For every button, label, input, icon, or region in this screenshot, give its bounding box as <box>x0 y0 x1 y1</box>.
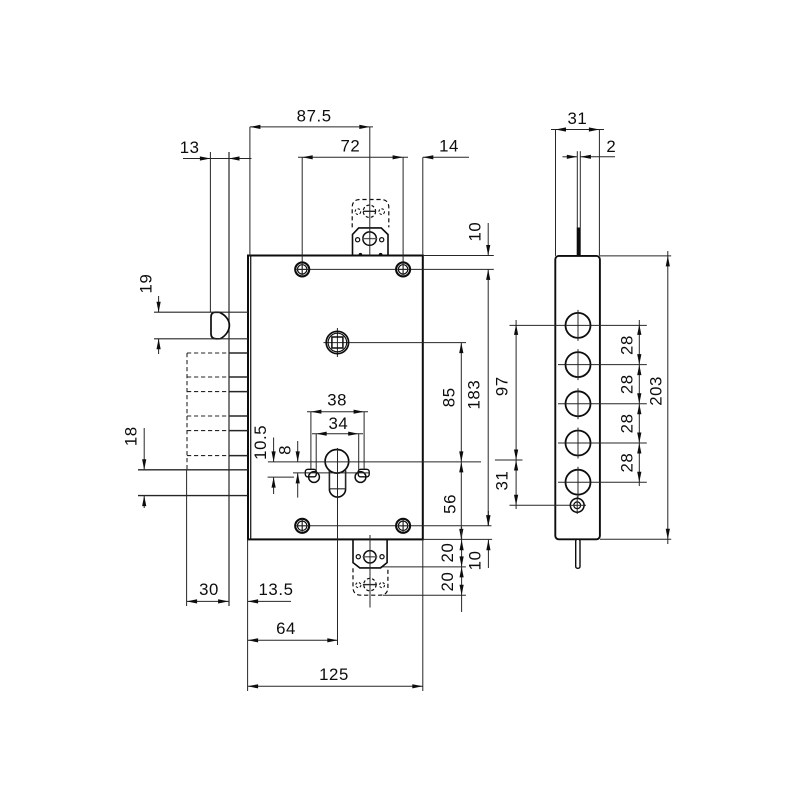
screw bottom-left <box>295 519 309 533</box>
bolt hole 2 <box>566 349 591 380</box>
svg-text:18: 18 <box>121 426 140 446</box>
bottom accessory dashed hole right <box>379 583 384 588</box>
dimension 30 <box>187 580 229 604</box>
dimension 28 chain <box>618 320 642 486</box>
screw bottom-right <box>396 519 410 533</box>
dimension 2 <box>563 137 617 159</box>
top accessory dashed hole right <box>379 209 385 215</box>
svg-text:38: 38 <box>327 390 347 409</box>
svg-text:85: 85 <box>440 387 459 407</box>
dimension 18 (bolt diameter) <box>121 426 146 508</box>
faceplate screw centre line <box>510 504 587 506</box>
dimension 10.5 <box>251 425 276 494</box>
dimension 13 <box>180 138 252 161</box>
svg-text:10: 10 <box>466 222 485 242</box>
deadbolts thrown position (dashed) <box>187 353 229 470</box>
plate bottom extension line <box>381 566 466 568</box>
euro profile cylinder <box>325 450 349 498</box>
cylinder centre reference line <box>268 461 481 463</box>
top accessory dashed outline <box>352 200 389 228</box>
dimension 19 (latch height) <box>136 274 160 354</box>
dimension 20 and 20 (bottom accessory) <box>438 527 464 612</box>
dimension 203 <box>600 251 671 544</box>
bolt hole 3 <box>566 388 591 419</box>
faceplate bottom tongue <box>576 539 580 568</box>
svg-text:30: 30 <box>199 580 219 599</box>
ear centre reference line <box>293 472 369 474</box>
deadbolt row 4 with extension lines <box>138 470 248 496</box>
bolt hole centre line 5 <box>558 481 647 483</box>
ear bottom reference line <box>268 476 294 478</box>
faceplate top tongue (solid) <box>577 228 581 256</box>
bottom screw centre line <box>309 525 492 527</box>
dimension 13.5 <box>248 580 294 604</box>
svg-text:31: 31 <box>492 471 511 491</box>
top accessory dashed hole left <box>355 209 361 215</box>
latch bolt (half-round) <box>211 312 229 339</box>
latch top line / extension <box>154 311 248 313</box>
svg-text:125: 125 <box>319 665 349 684</box>
dimension 85 and 56 line <box>440 343 464 540</box>
dimension 183 with top 10 <box>464 222 490 526</box>
svg-text:19: 19 <box>136 274 155 294</box>
dimension 72 <box>298 137 408 160</box>
svg-text:31: 31 <box>567 109 587 128</box>
top plate bottom nubs <box>359 253 383 257</box>
faceplate body (side view) <box>555 256 600 539</box>
dimension 64 <box>248 619 338 642</box>
bottom accessory dashed screw circle <box>363 578 377 590</box>
svg-text:10: 10 <box>466 550 485 570</box>
cylinder centre line <box>337 448 339 645</box>
svg-text:97: 97 <box>492 376 511 396</box>
square follower nut <box>324 328 467 357</box>
body bottom edge extension <box>423 538 492 540</box>
screw top-right <box>396 262 410 276</box>
svg-text:34: 34 <box>328 414 348 433</box>
svg-text:28: 28 <box>618 453 637 473</box>
bottom accessory centre line <box>369 535 371 608</box>
svg-text:10.5: 10.5 <box>251 425 270 460</box>
dashed piece bottom extension line <box>383 594 466 596</box>
dimension 34 <box>312 414 363 471</box>
body left edge top extension <box>249 127 251 256</box>
dimension 8 <box>276 441 300 498</box>
svg-text:28: 28 <box>618 374 637 394</box>
bottom plate screw <box>363 551 378 563</box>
screw top-left <box>295 262 309 276</box>
top accessory dashed screw circle <box>363 205 376 217</box>
svg-text:14: 14 <box>439 137 459 156</box>
bolt hole 4 <box>566 428 591 459</box>
bolt hole 1 <box>566 310 591 341</box>
svg-text:2: 2 <box>606 137 616 156</box>
dimension 31 (top) <box>551 109 604 256</box>
dimension 10 (bottom) <box>466 511 491 570</box>
top accessory plate <box>353 228 389 256</box>
cylinder fixing ear right <box>355 469 369 482</box>
bottom plate hole right <box>380 555 384 559</box>
svg-text:8: 8 <box>276 445 295 455</box>
dimension 38 <box>307 390 368 469</box>
faceplate top tail extension lines <box>577 151 580 227</box>
bolt hole centre line 2 <box>558 364 647 366</box>
bottom accessory dashed outline <box>353 568 388 595</box>
top screw centre line <box>309 268 494 270</box>
svg-text:28: 28 <box>618 335 637 355</box>
faceplate front edge line <box>228 152 230 606</box>
top plate hole right <box>380 238 384 242</box>
svg-text:183: 183 <box>464 380 483 410</box>
body right edge bottom extension <box>422 539 424 691</box>
svg-text:87.5: 87.5 <box>297 106 332 125</box>
bolt hole 5 <box>566 467 591 498</box>
dimension 125 <box>248 665 423 688</box>
svg-text:13.5: 13.5 <box>258 580 293 599</box>
bolt throw extension line <box>186 470 188 606</box>
bottom accessory plate <box>353 539 387 568</box>
lock body outline (front view) <box>248 256 423 540</box>
dimension 87.5 <box>250 106 373 129</box>
bolt hole centre line 4 <box>558 442 647 444</box>
svg-text:20: 20 <box>438 543 457 563</box>
svg-text:20: 20 <box>438 572 457 592</box>
faceplate fixing screw <box>570 497 584 515</box>
top plate screw <box>362 232 377 246</box>
cylinder fixing ear left <box>305 469 319 482</box>
svg-text:64: 64 <box>276 619 296 638</box>
top accessory centre line <box>369 127 371 256</box>
top plate hole left <box>356 238 360 242</box>
bottom accessory dashed hole left <box>356 583 361 588</box>
latch bottom line / extension <box>154 338 248 340</box>
dimension 14 <box>423 137 469 256</box>
bolt hole centre line 3 <box>558 403 647 405</box>
deadbolts (solid, rows 1-3) <box>229 353 248 456</box>
latch front extension line <box>209 152 211 312</box>
body top edge extension <box>423 255 494 257</box>
svg-text:28: 28 <box>618 413 637 433</box>
svg-text:13: 13 <box>180 138 200 157</box>
svg-text:203: 203 <box>646 376 665 406</box>
svg-text:72: 72 <box>340 137 360 156</box>
bottom plate hole left <box>356 555 360 559</box>
body left edge bottom extension <box>247 539 249 691</box>
svg-text:56: 56 <box>440 494 459 514</box>
bolt hole centre line 1 <box>510 324 647 326</box>
dimension 97 and 31 line <box>492 320 522 509</box>
top screws extension lines <box>302 157 403 262</box>
